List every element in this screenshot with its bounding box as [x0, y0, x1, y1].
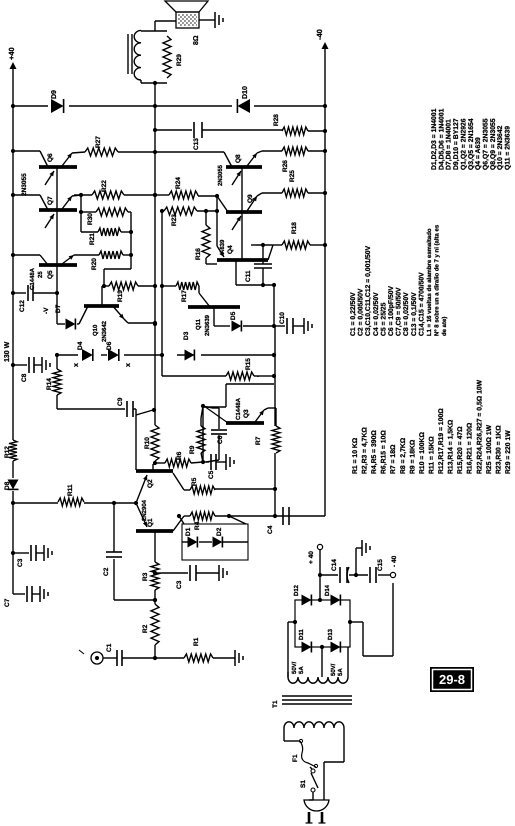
wire base feed	[84, 502, 136, 504]
resistor R27	[85, 148, 118, 156]
svg-text:C8: C8	[21, 373, 28, 382]
resistor R16	[202, 225, 210, 258]
ground psu	[355, 548, 357, 575]
rectifier bridge	[295, 600, 350, 647]
svg-text:D4,D5,D6 = 1N4001: D4,D5,D6 = 1N4001	[438, 108, 445, 170]
svg-text:Q10 = 2N3642: Q10 = 2N3642	[497, 125, 504, 170]
svg-text:D3: D3	[183, 331, 190, 340]
wire Q11 emitter to D5	[213, 307, 215, 326]
capacitor C9 (comp)	[56, 395, 58, 409]
svg-text:R27: R27	[95, 136, 102, 148]
svg-text:Q11 = 2N3639: Q11 = 2N3639	[505, 126, 512, 170]
resistor R29	[163, 36, 171, 78]
svg-text:C4 = 0,02/50V: C4 = 0,02/50V	[373, 292, 380, 336]
capacitor C3 rail	[13, 552, 29, 554]
svg-text:R7: R7	[255, 436, 262, 445]
svg-text:C1448A: C1448A	[235, 397, 242, 420]
svg-text:D12: D12	[293, 584, 300, 596]
svg-text:R22: R22	[101, 180, 108, 192]
svg-text:2N3642: 2N3642	[101, 320, 108, 342]
inductor L1 coil	[140, 80, 142, 83]
wire bridge to +40	[319, 575, 321, 600]
diode D12	[302, 595, 312, 606]
svg-text:130 W: 130 W	[4, 341, 11, 362]
diode D5	[232, 321, 242, 332]
wire R15 left to bias line	[162, 375, 226, 377]
svg-text:D7: D7	[55, 304, 62, 313]
capacitor C2	[114, 599, 155, 601]
svg-text:8Ω: 8Ω	[193, 35, 200, 45]
capacitor C4	[282, 507, 284, 525]
svg-text:R18: R18	[291, 222, 298, 234]
diode D10	[237, 99, 250, 113]
svg-text:D4: D4	[77, 341, 84, 350]
svg-text:R9: R9	[189, 445, 196, 454]
wire Q3 base node	[201, 404, 205, 408]
svg-text:C13 = 0,1/50V: C13 = 0,1/50V	[411, 292, 418, 336]
diode D2	[213, 537, 223, 548]
svg-text:R12,R17,R19 = 100Ω: R12,R17,R19 = 100Ω	[438, 408, 445, 474]
svg-text:R25: R25	[289, 170, 296, 182]
svg-text:T1: T1	[272, 700, 279, 708]
transistor Q2	[136, 469, 173, 473]
resistor R4	[190, 512, 215, 520]
svg-text:C10: C10	[279, 312, 286, 324]
svg-text:R2,R3 = 4,7KΩ: R2,R3 = 4,7KΩ	[362, 427, 369, 474]
capacitor C7	[13, 593, 25, 595]
capacitor C1	[103, 657, 117, 659]
transistor Q7	[39, 208, 77, 212]
svg-text:F1: F1	[292, 754, 299, 762]
node +40 terminal	[317, 544, 322, 549]
svg-text:R11: R11	[67, 484, 74, 496]
svg-text:R20: R20	[91, 258, 98, 270]
svg-text:D14: D14	[324, 584, 331, 596]
svg-text:R21: R21	[89, 233, 96, 245]
svg-text:+ 40: + 40	[308, 551, 315, 564]
resistor R25	[282, 189, 308, 197]
svg-text:Q1,Q2 = 2N2926: Q1,Q2 = 2N2926	[460, 118, 467, 170]
resistor R28	[282, 127, 308, 135]
svg-text:- 40: - 40	[391, 555, 398, 567]
svg-text:D7,D8 = 1N4001: D7,D8 = 1N4001	[446, 119, 453, 170]
resistor R11	[58, 498, 84, 506]
node2 R9/R6/C5	[201, 460, 205, 464]
wire +40 top rail	[12, 491, 14, 594]
diode D7	[57, 323, 65, 325]
svg-text:C7: C7	[4, 598, 11, 607]
wire filter chain	[320, 574, 338, 576]
svg-text:2N3055: 2N3055	[21, 173, 28, 196]
svg-text:C7,C9 = 50/50V: C7,C9 = 50/50V	[396, 287, 403, 336]
diode D13	[331, 642, 341, 653]
wire primary bottom	[343, 728, 345, 762]
svg-text:D9: D9	[51, 90, 58, 99]
svg-text:R5: R5	[191, 477, 198, 486]
wire main output bus	[152, 464, 154, 471]
svg-text:2N3639: 2N3639	[204, 314, 211, 336]
svg-text:C3,C10,C11,C12 = 0,001/50V: C3,C10,C11,C12 = 0,001/50V	[365, 245, 372, 336]
svg-text:C6: C6	[217, 435, 224, 444]
svg-text:R23,R30 = 1KΩ: R23,R30 = 1KΩ	[495, 425, 502, 474]
svg-text:Nº 8 sobre un a diralio de 7 y: Nº 8 sobre un a diralio de 7 y ni (alta …	[434, 224, 441, 336]
svg-text:C4: C4	[267, 525, 274, 534]
svg-text:R15,R20 = 47Ω: R15,R20 = 47Ω	[457, 426, 464, 474]
svg-text:R10 = 100KΩ: R10 = 100KΩ	[419, 432, 426, 474]
resistor R10	[151, 425, 159, 461]
wire base node line	[216, 196, 218, 246]
resistor R3	[151, 562, 159, 590]
svg-text:R30: R30	[87, 213, 94, 225]
svg-text:5A: 5A	[298, 666, 305, 674]
svg-text:Q1: Q1	[147, 518, 154, 527]
resistor R21	[81, 231, 98, 233]
jack J1	[91, 652, 103, 664]
resistor R5	[190, 486, 215, 494]
capacitor C15	[369, 567, 371, 583]
resistor R12	[9, 440, 17, 461]
svg-text:R8 = 2,7KΩ: R8 = 2,7KΩ	[400, 437, 407, 474]
wire diode string	[57, 354, 78, 356]
wire bridge top tap	[287, 622, 289, 677]
resistor R17	[176, 282, 199, 290]
svg-text:C12: C12	[19, 300, 26, 312]
svg-text:C2 = 0,005/50V: C2 = 0,005/50V	[358, 288, 365, 336]
diode D4	[82, 349, 93, 361]
svg-text:D2: D2	[216, 527, 223, 536]
capacitor C8	[13, 364, 27, 366]
diode D11	[302, 642, 312, 653]
svg-text:C5 = 25/25: C5 = 25/25	[380, 302, 387, 336]
svg-text:R14: R14	[46, 378, 53, 390]
ground speaker	[199, 19, 215, 21]
svg-text:R11 = 15KΩ: R11 = 15KΩ	[428, 436, 435, 474]
svg-text:Q3: Q3	[243, 409, 250, 418]
svg-text:R1: R1	[193, 637, 200, 646]
svg-text:C15: C15	[377, 559, 384, 571]
diode D8 (rail)	[8, 480, 19, 490]
svg-text:R9 = 18KΩ: R9 = 18KΩ	[409, 439, 416, 474]
svg-text:R10: R10	[144, 437, 151, 449]
svg-text:C14: C14	[331, 559, 338, 571]
svg-text:C13: C13	[193, 138, 200, 150]
svg-text:Q10: Q10	[92, 324, 99, 336]
fuse F1	[300, 741, 316, 767]
wire primary top to fuse	[283, 728, 285, 741]
node -40 terminal	[390, 572, 395, 577]
svg-text:-40: -40	[315, 29, 324, 40]
svg-text:Q4: Q4	[227, 245, 234, 254]
svg-text:R26: R26	[282, 160, 289, 172]
svg-text:C1: C1	[106, 643, 113, 652]
svg-text:D13: D13	[327, 628, 334, 640]
svg-text:R6: R6	[176, 451, 183, 460]
svg-text:Q8,Q9 = 2N3055: Q8,Q9 = 2N3055	[490, 118, 497, 170]
svg-text:R23: R23	[171, 214, 178, 226]
svg-text:R13,R14 = 1,5KΩ: R13,R14 = 1,5KΩ	[448, 419, 455, 474]
resistor R6	[191, 462, 203, 463]
svg-text:Q5: Q5	[47, 270, 54, 279]
svg-text:C11: C11	[245, 270, 252, 282]
wire output to coil	[154, 83, 156, 106]
svg-text:Q6: Q6	[47, 153, 54, 162]
svg-text:D1,D2,D3 = 1N4001: D1,D2,D3 = 1N4001	[431, 108, 438, 170]
wire -40 bottom rail	[324, 49, 326, 516]
svg-text:D10: D10	[242, 86, 249, 99]
svg-text:R28: R28	[273, 114, 280, 126]
svg-text:C14,C15 = 4700/50V: C14,C15 = 4700/50V	[418, 272, 425, 336]
svg-text:50V/: 50V/	[291, 661, 298, 674]
svg-text:+40: +40	[7, 47, 16, 60]
transistor Q1	[136, 529, 173, 533]
transistor Q4	[217, 258, 268, 262]
wire to speaker	[154, 21, 156, 31]
diode D14	[331, 595, 341, 606]
svg-text:D1: D1	[185, 527, 192, 536]
transistor Q9	[226, 210, 262, 214]
svg-text:R24: R24	[175, 177, 182, 189]
wire R16 left end	[205, 258, 207, 264]
resistor R30	[81, 211, 96, 213]
transistor Q11	[188, 305, 240, 309]
svg-text:S1: S1	[300, 780, 307, 788]
svg-text:29-8: 29-8	[439, 672, 465, 687]
resistor R1	[155, 657, 184, 659]
wire bias line y162	[161, 210, 163, 376]
capacitor C6	[203, 406, 212, 408]
svg-text:Q9: Q9	[247, 194, 254, 203]
wire coil-R29 right	[141, 30, 167, 32]
svg-text:R16: R16	[195, 248, 202, 260]
svg-text:Q2: Q2	[147, 479, 154, 488]
svg-text:R3: R3	[142, 572, 149, 581]
transformer T1 secondary	[288, 677, 348, 683]
capacitor C11	[254, 267, 272, 269]
svg-text:Q11: Q11	[195, 318, 202, 330]
wire mid bus y274	[274, 453, 276, 516]
figure number box 29-8	[430, 667, 474, 692]
svg-text:C2: C2	[103, 567, 110, 576]
svg-text:5A: 5A	[337, 668, 344, 676]
diode clamp box D1 D2	[182, 524, 248, 560]
resistor R23	[162, 210, 164, 212]
svg-text:Q4 = A639: Q4 = A639	[475, 137, 482, 170]
svg-text:Q6,Q7 = 2N3055: Q6,Q7 = 2N3055	[482, 118, 489, 170]
capacitor C14	[339, 567, 341, 583]
svg-text:R17: R17	[181, 290, 188, 302]
svg-text:C5: C5	[208, 470, 215, 479]
svg-text:C8 = 0,02/50V: C8 = 0,02/50V	[403, 292, 410, 336]
wire R21/R30 bottom join	[121, 231, 131, 233]
speaker SPK	[176, 12, 199, 28]
svg-text:R15: R15	[245, 358, 252, 370]
wire base node to R9/C6	[202, 406, 204, 462]
svg-text:Q3,Q5 = 2N1654: Q3,Q5 = 2N1654	[468, 118, 475, 170]
svg-text:D8: D8	[4, 481, 11, 490]
wire Q4 collector path	[236, 284, 274, 286]
transistor Q5	[39, 263, 77, 267]
capacitor C5	[203, 461, 209, 463]
svg-text:R7 = 18Ω: R7 = 18Ω	[390, 444, 397, 474]
resistor R24	[155, 194, 169, 196]
capacitor C10	[274, 325, 285, 327]
svg-text:-V: -V	[43, 307, 50, 314]
svg-text:Q7: Q7	[47, 196, 54, 205]
svg-text:R4,R5 = 390Ω: R4,R5 = 390Ω	[371, 430, 378, 474]
resistor R14	[53, 369, 61, 395]
svg-text:de ate): de ate)	[441, 317, 448, 336]
svg-text:A639: A639	[219, 239, 226, 254]
svg-text:R2: R2	[142, 624, 149, 633]
svg-text:C3: C3	[17, 558, 24, 567]
svg-text:25: 25	[37, 271, 44, 278]
svg-text:C1 = 0,22/50V: C1 = 0,22/50V	[350, 292, 357, 336]
svg-text:R25 = 100Ω 1W: R25 = 100Ω 1W	[486, 424, 493, 474]
switch S1	[311, 769, 315, 773]
transistor Q6	[39, 165, 77, 169]
svg-text:R29: R29	[176, 54, 183, 66]
svg-text:Q8: Q8	[235, 154, 242, 163]
wire emitter bus y81	[80, 195, 82, 232]
plug P1	[304, 800, 329, 811]
svg-text:R19: R19	[117, 290, 124, 302]
wire R15 bypass to Q3 base	[226, 383, 274, 385]
wire collector line Q6-Q7-Q5	[56, 167, 58, 324]
resistor R15	[258, 375, 274, 377]
diode D6	[108, 349, 119, 361]
diode D9	[51, 99, 64, 113]
svg-text:50V/: 50V/	[330, 663, 337, 676]
svg-text:C3: C3	[176, 580, 183, 589]
svg-text:R22,R24,R26,R27 = 0,5Ω 10W: R22,R24,R26,R27 = 0,5Ω 10W	[476, 379, 483, 474]
wire coil-R29 left	[141, 82, 167, 84]
resistor R7	[272, 426, 280, 453]
svg-text:R1 = 10 KΩ: R1 = 10 KΩ	[352, 437, 359, 474]
inductor core lines	[127, 34, 129, 74]
svg-text:2N3055: 2N3055	[217, 164, 224, 186]
svg-text:R29 = 220 1W: R29 = 220 1W	[505, 430, 512, 474]
svg-text:R12: R12	[4, 446, 11, 458]
wire Q3 emitter	[255, 410, 264, 422]
svg-text:R6,R15 = 10Ω: R6,R15 = 10Ω	[381, 430, 388, 474]
resistor R18	[256, 244, 273, 246]
svg-text:C9: C9	[117, 397, 124, 406]
transistor Q8	[226, 165, 262, 169]
wire output diode line	[13, 105, 48, 107]
svg-text:R16,R21 = 120Ω: R16,R21 = 120Ω	[467, 422, 474, 474]
resistor R9	[201, 453, 203, 462]
diode D3	[185, 350, 195, 361]
resistor R19	[109, 282, 138, 290]
svg-text:x: x	[125, 363, 132, 367]
resistor R26	[282, 147, 308, 155]
wire Q1 base from input bus	[154, 531, 156, 547]
svg-text:D9,D10 = BY127: D9,D10 = BY127	[453, 118, 460, 170]
capacitor C13	[155, 129, 192, 131]
transistor Q3	[226, 421, 264, 425]
transformer T1 primary	[284, 722, 344, 728]
svg-text:D5: D5	[230, 311, 237, 320]
capacitor C3 input	[155, 572, 162, 574]
svg-text:R4: R4	[194, 521, 201, 530]
capacitor C12	[13, 292, 26, 294]
resistor R22	[92, 191, 124, 199]
diode D1	[188, 537, 198, 548]
svg-text:D6: D6	[106, 341, 113, 350]
wire collector join right pair	[241, 167, 243, 260]
wire bridge bottom loop to -40	[350, 621, 363, 623]
wire center tap	[321, 647, 323, 677]
resistor R2	[154, 645, 156, 658]
transistor Q10	[84, 304, 119, 308]
svg-text:x: x	[73, 363, 80, 367]
transformer core	[282, 703, 352, 705]
resistor R20	[99, 251, 123, 259]
svg-text:L1 = 16 vueltas de alambre esm: L1 = 16 vueltas de alambre esmaltado	[426, 228, 433, 336]
svg-text:D11: D11	[298, 629, 305, 640]
svg-text:C6 = 100pF/50V: C6 = 100pF/50V	[388, 285, 395, 336]
